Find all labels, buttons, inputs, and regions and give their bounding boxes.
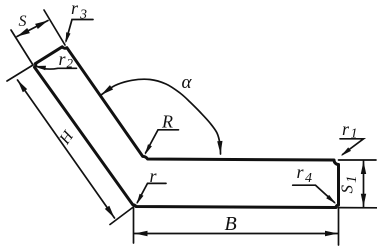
svg-text:r: r bbox=[150, 166, 158, 186]
svg-text:r4: r4 bbox=[297, 162, 313, 186]
svg-text:S: S bbox=[19, 13, 27, 30]
svg-text:R: R bbox=[161, 112, 173, 132]
svg-text:r1: r1 bbox=[342, 119, 358, 142]
svg-text:B: B bbox=[225, 213, 237, 235]
svg-text:α: α bbox=[182, 72, 193, 93]
svg-text:H: H bbox=[56, 127, 78, 148]
svg-text:S1: S1 bbox=[338, 176, 361, 194]
